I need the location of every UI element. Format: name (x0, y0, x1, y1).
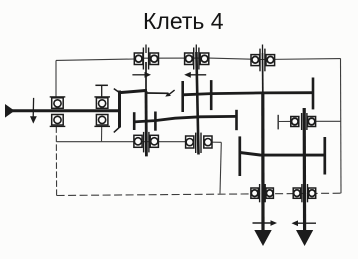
svg-text:Клеть 4: Клеть 4 (143, 8, 224, 34)
